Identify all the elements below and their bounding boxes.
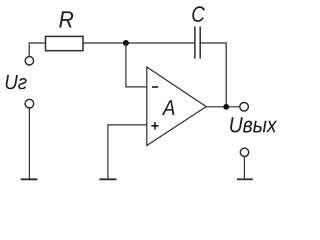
junction dot node 1 xyxy=(123,40,129,46)
resistor R1 xyxy=(46,36,84,50)
label A xyxy=(162,100,174,115)
capacitor C1 plate left xyxy=(194,27,196,59)
label C xyxy=(192,6,205,22)
label Uвых xyxy=(230,117,277,132)
label Uг xyxy=(6,75,27,89)
wire input lower stub xyxy=(28,108,30,178)
wire resistor to capacitor xyxy=(83,42,195,44)
wire noninverting input to ground xyxy=(108,125,147,178)
op-amp A triangle xyxy=(147,67,206,146)
output wire xyxy=(206,106,240,108)
input terminal circle xyxy=(25,57,33,65)
capacitor C1 plate right xyxy=(199,27,201,59)
input lower reference terminal xyxy=(25,99,34,108)
output junction dot xyxy=(223,104,229,110)
lower output reference terminal xyxy=(240,148,248,156)
ground bar middle xyxy=(99,178,116,180)
plus sign noninverting input xyxy=(151,122,158,129)
wire to inverting input xyxy=(126,43,147,87)
wire feedback from capacitor to output node xyxy=(200,43,226,107)
minus sign inverting input xyxy=(152,86,158,88)
ground bar left xyxy=(21,178,38,180)
wire input elbow xyxy=(29,43,45,57)
output terminal circle xyxy=(240,103,249,112)
ground bar right xyxy=(237,178,253,180)
wire lower right stub xyxy=(243,157,245,179)
label R xyxy=(59,11,73,27)
